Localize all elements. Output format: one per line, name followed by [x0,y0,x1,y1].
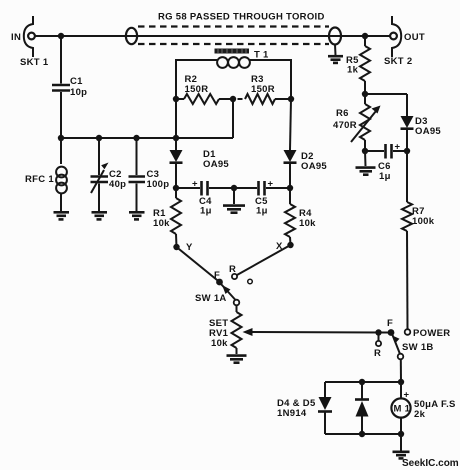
wire ferrule to ground [334,45,337,56]
wire SW1B pole down to meter rail [400,359,402,382]
wire center tap down to bus [232,99,234,138]
svg-text:150R: 150R [185,84,209,95]
coax right ferrule [329,28,341,45]
node bus junction C2 [96,135,102,141]
svg-text:RFC 1: RFC 1 [25,174,54,185]
ground mid (C4/C5) [223,206,245,213]
svg-text:+: + [395,142,401,153]
svg-text:F: F [387,318,393,329]
svg-text:SKT 1: SKT 1 [20,57,49,68]
node bus junction C3 [133,135,139,141]
node R6 bottom junction [362,148,368,154]
svg-text:OA95: OA95 [203,159,229,170]
wire coax center conductor [129,35,390,37]
svg-text:10k: 10k [211,338,228,349]
svg-text:150R: 150R [251,84,275,95]
ground under toroid shield [328,56,343,63]
wire main bus [61,137,233,139]
svg-text:1μ: 1μ [256,206,268,217]
node R5/R6 junction [362,91,368,97]
svg-text:100p: 100p [147,179,170,190]
spare contact dot SW1A [248,279,253,284]
svg-text:+: + [268,179,274,190]
diode D1 [170,138,183,188]
svg-text:T 1: T 1 [254,50,269,61]
switch SW1B arm [392,335,403,359]
wire meter top rail [325,381,401,383]
capacitor C6 [365,144,407,159]
wire bridge box left edge [176,60,217,138]
inductor RFC1 [56,138,67,211]
node bottom rail meter junction [398,431,404,437]
resistor R1 [171,188,181,247]
connector SKT2 (OUT socket) [390,16,401,57]
node bus junction RFC1 [58,135,64,141]
ground under meter rail [393,452,410,459]
resistor R6 (variable) [351,94,381,151]
capacitor C2 (variable) [91,138,109,211]
svg-text:POWER: POWER [413,328,450,339]
capacitor C4 [176,181,234,196]
node F contact SW1B [388,329,395,336]
node box left at R2 [173,96,179,102]
wire bottom rail to ground [400,434,402,451]
node C5 right junction [287,185,293,191]
coax shield top (dashed) [138,25,329,27]
wire mid junction to ground [233,188,235,204]
svg-text:470R: 470R [333,120,357,131]
svg-text:40p: 40p [109,179,126,190]
svg-text:R6: R6 [336,108,349,119]
node C6/D3 junction [404,148,410,154]
ground under RFC1 [54,212,70,219]
node bottom rail D5 junction [359,431,365,437]
svg-text:OA95: OA95 [415,126,441,137]
svg-text:M 1: M 1 [394,404,411,415]
svg-text:1μ: 1μ [200,206,212,217]
resistor R5 [360,36,370,94]
svg-text:OUT: OUT [404,32,425,43]
transformer T1 core [215,49,250,54]
wire meter bottom rail [325,433,401,435]
ground under C2 [92,212,108,219]
node F contact SW1A [216,279,223,286]
connector SKT1 (IN socket) [24,16,35,57]
node Y [173,244,179,250]
svg-text:F: F [214,270,220,281]
svg-text:+: + [404,390,410,401]
wire X diagonal to R contact [237,245,291,275]
node wiper-wire junction (R stub) [375,329,381,335]
potentiometer RV1 [232,305,242,354]
svg-text:SKT 2: SKT 2 [384,56,412,67]
node C4 left junction [173,185,179,191]
svg-text:Y: Y [186,242,193,253]
svg-text:10k: 10k [299,218,316,229]
svg-text:SeekIC.com: SeekIC.com [402,458,459,469]
diode D2 [284,99,297,188]
capacitor C3 [129,138,146,211]
svg-text:1N914: 1N914 [277,408,307,419]
svg-text:100k: 100k [412,216,435,227]
svg-text:10k: 10k [153,218,170,229]
svg-text:IN: IN [11,32,21,43]
ground under RV1 [227,356,247,363]
svg-text:SW 1A: SW 1A [195,293,227,304]
node top rail D5 junction [359,379,365,385]
svg-text:R: R [374,348,381,359]
node bus junction D1 [173,135,179,141]
svg-text:1μ: 1μ [379,171,391,182]
capacitor C5 [234,181,290,196]
ground under C3 [129,212,145,219]
node center tap R2/R3 [230,96,236,102]
wire box right edge [250,60,291,99]
transformer T1 winding [217,57,250,68]
ground under R6 [356,168,376,175]
svg-text:+: + [192,179,198,190]
resistor R7 [402,151,412,329]
resistor R4 [285,188,295,245]
coax left ferrule [126,28,137,44]
switch SW1B R contact stub [378,333,380,342]
diode D5 [355,382,369,434]
wire RV1 wiper to SW1B [243,328,392,336]
wire R6 bottom to ground [364,151,367,166]
terminal POWER [405,329,411,335]
node X [287,242,293,248]
meter M1 [391,382,410,434]
wire Y diagonal to F [177,247,220,282]
resistor R3 [238,94,292,104]
node top rail / pole junction [398,379,404,385]
switch SW1A arm [221,284,239,305]
switch SW1A R contact [232,274,237,279]
node C4/C5 mid junction [231,185,237,191]
wire R6 top junction to D3 [365,93,407,95]
wire IN to coax center [35,35,129,37]
node junction at R5 top [362,33,368,39]
coax shield bottom (dashed) [138,43,329,45]
svg-text:SW 1B: SW 1B [402,342,434,353]
svg-text:R: R [229,264,236,275]
capacitor C1 [52,36,70,138]
diode D3 [401,94,414,151]
svg-text:OA95: OA95 [301,161,327,172]
svg-text:10p: 10p [70,87,87,98]
node box right at R3 [288,96,294,102]
diode D4 [318,382,332,434]
resistor R2 [176,94,233,104]
svg-text:1k: 1k [347,65,359,76]
svg-text:C1: C1 [70,76,83,87]
node junction at C1 top [58,33,64,39]
svg-text:RG 58 PASSED THROUGH TOROID: RG 58 PASSED THROUGH TOROID [158,11,325,22]
svg-text:2k: 2k [414,409,426,420]
